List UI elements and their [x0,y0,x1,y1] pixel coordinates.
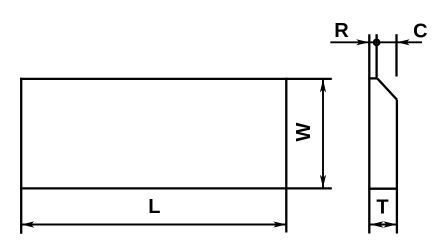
svg-text:C: C [413,20,427,42]
side view right edge with extension down to T dimension [396,100,398,234]
side view top flat edge [368,77,377,79]
side view left edge with extensions up to R/C dimension and down to T dimension [368,34,370,233]
front view right edge with extension down to L dimension [285,78,287,233]
front view bottom edge with extension to W dimension [20,187,332,189]
L dimension right arrowhead [273,221,286,227]
svg-text:W: W [293,122,315,141]
T dimension left arrowhead pointing left [370,221,384,227]
front view left edge with extension down to L dimension [20,78,22,234]
T dimension right arrowhead pointing right [383,221,397,227]
W dimension line [322,79,324,188]
side view nose extension line through dot [375,34,377,79]
svg-text:T: T [376,197,388,219]
L dimension left arrowhead [21,221,34,227]
svg-text:R: R [334,20,349,42]
W dimension top arrowhead [320,80,326,93]
dot terminator circle [374,40,380,46]
C dimension leader line [397,41,422,43]
svg-text:L: L [148,196,160,218]
L dimension line [21,224,286,226]
side view chamfer edge [378,79,397,100]
dimension line between R and C extension lines [370,41,396,43]
T dimension line [370,224,397,226]
front view top edge with extension to W dimension [20,78,332,80]
C dimension arrowhead pointing left [397,39,410,45]
R dimension arrowhead pointing right [356,39,369,45]
R dimension leader line [330,41,369,43]
side view bottom edge [368,188,397,190]
W dimension bottom arrowhead [320,175,326,188]
side view right extension line for C dimension [395,34,397,76]
